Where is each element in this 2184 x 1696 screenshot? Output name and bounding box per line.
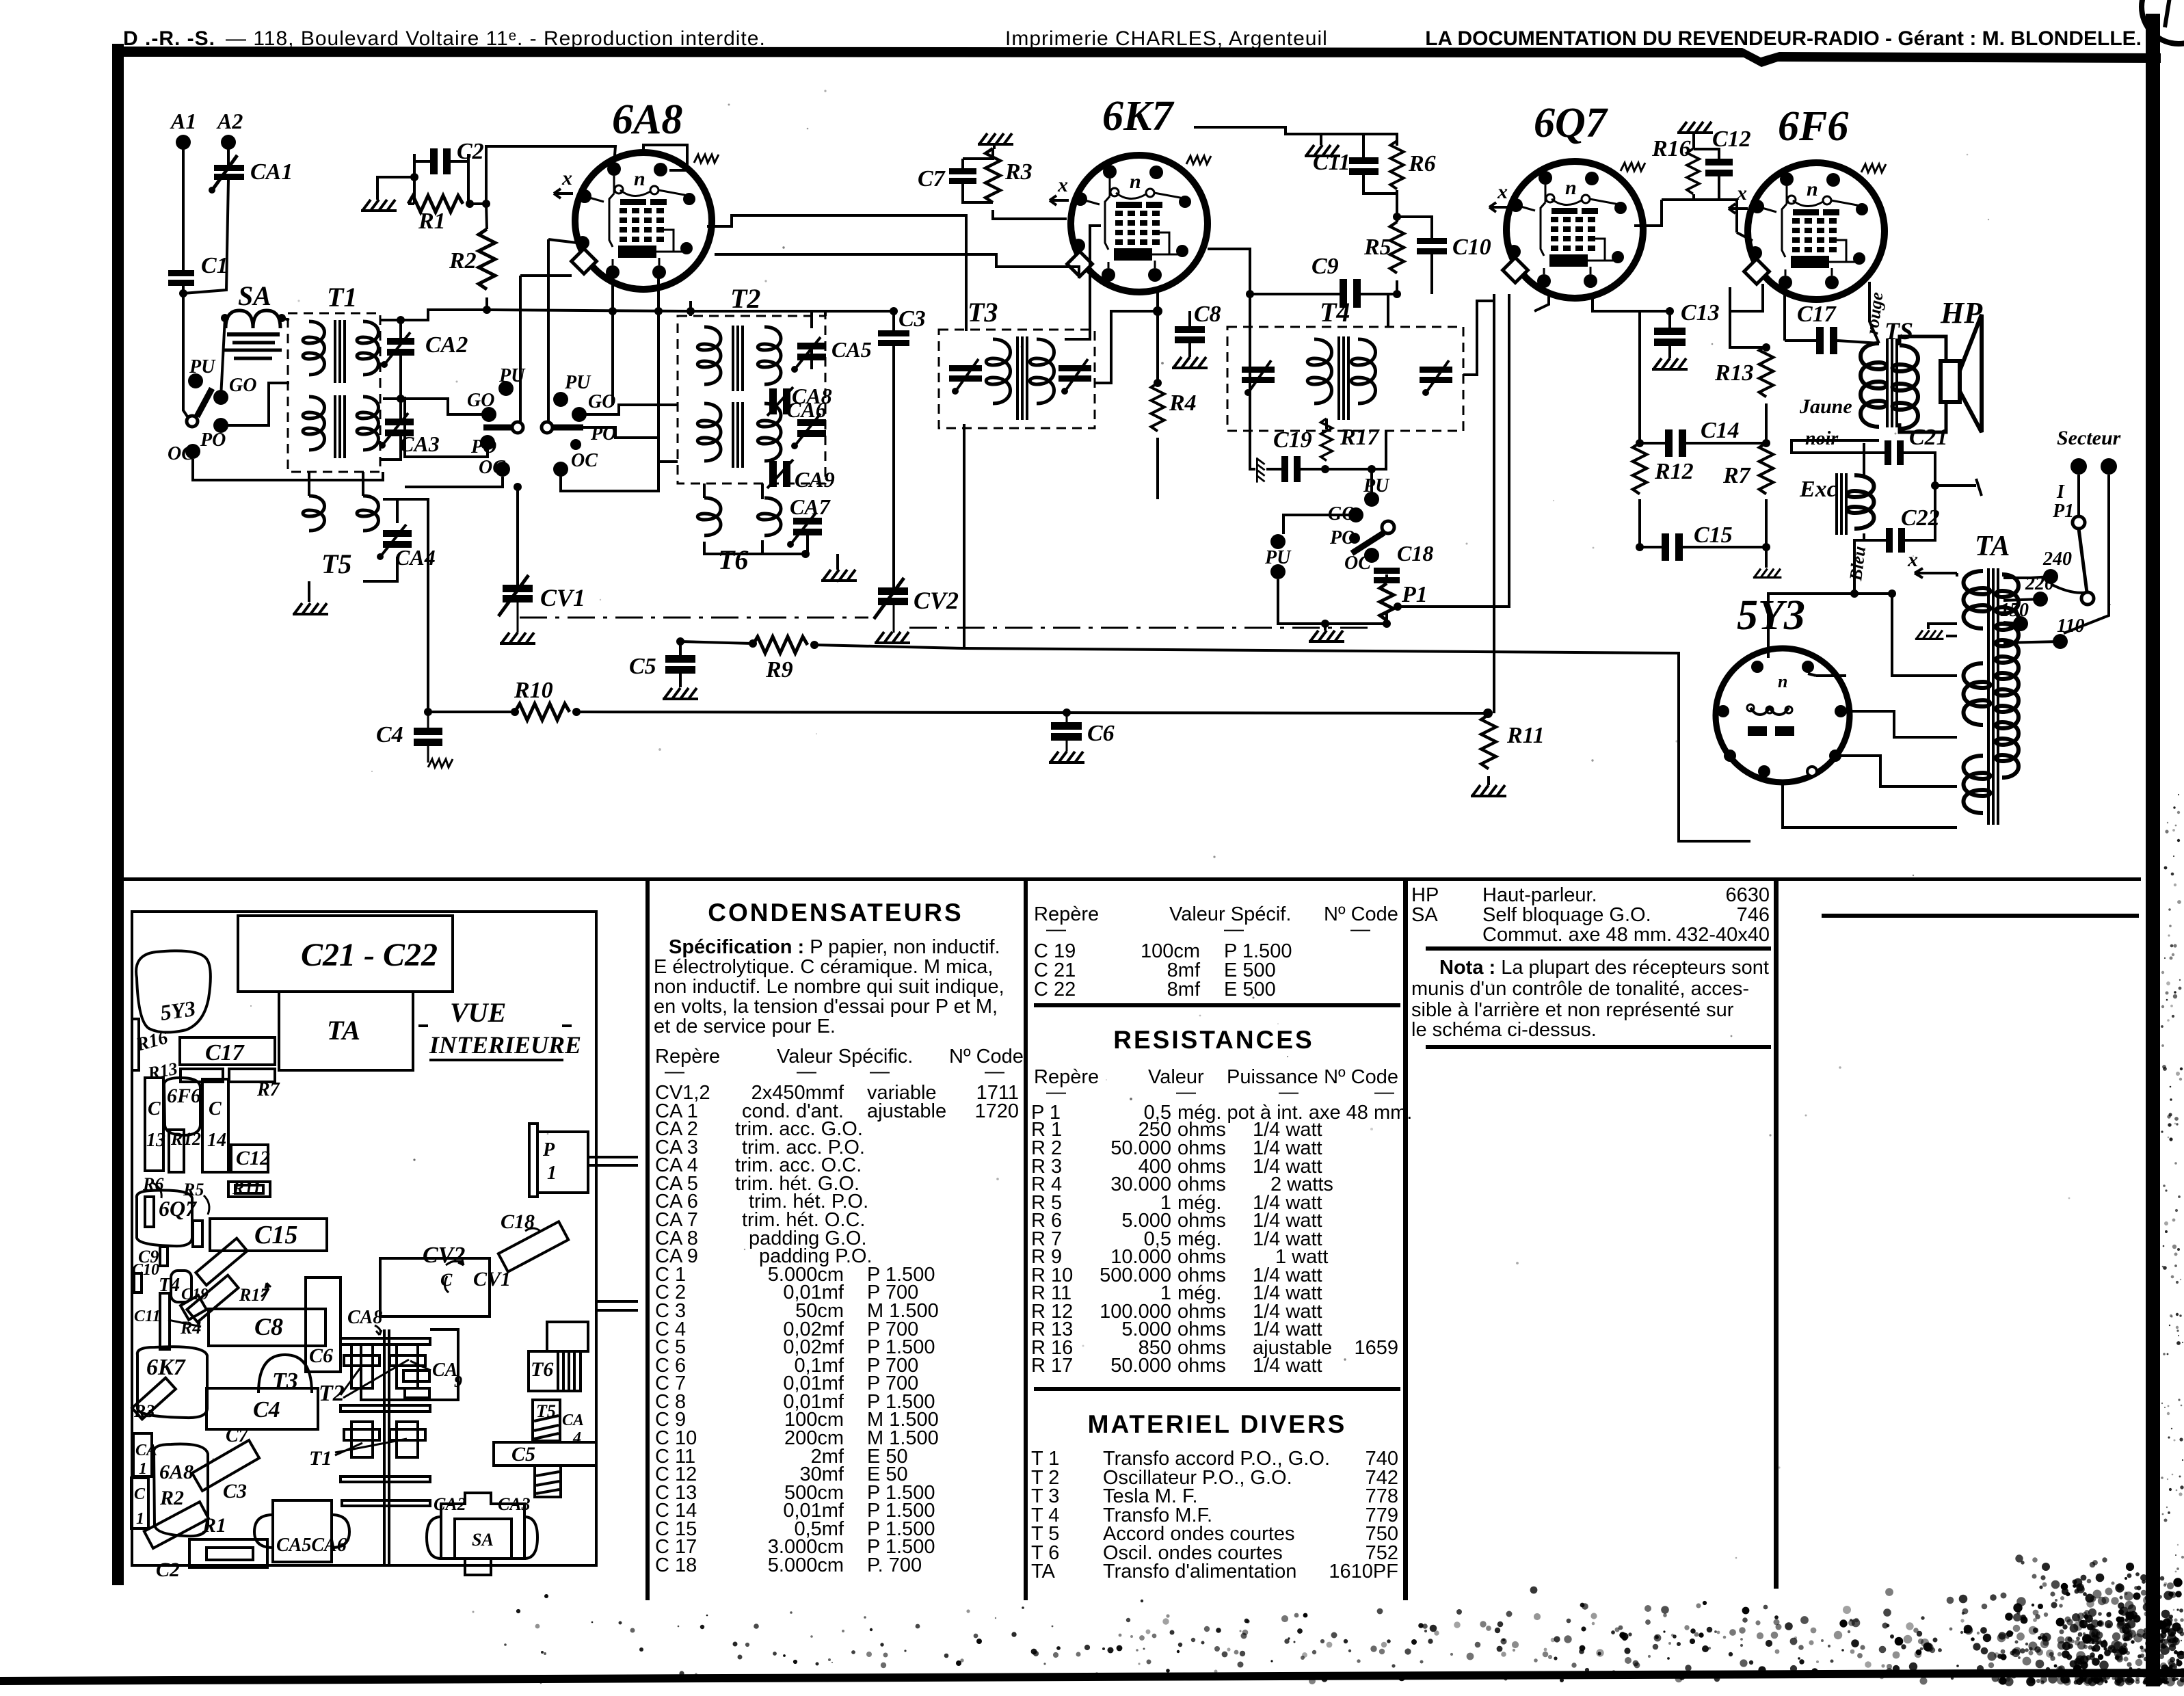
svg-text:Repère: Repère <box>1034 1066 1099 1088</box>
svg-text:T6: T6 <box>718 544 748 575</box>
capacitor C3 <box>878 306 926 346</box>
resistor R11 <box>1481 715 1496 769</box>
svg-text:RESISTANCES: RESISTANCES <box>1113 1026 1314 1054</box>
R6 chip <box>145 1197 154 1227</box>
C12 block <box>231 1145 268 1172</box>
grid cap C7 and R3 on 6K7 <box>918 166 976 191</box>
svg-text:R7: R7 <box>1722 463 1752 488</box>
svg-text:Secteur: Secteur <box>2057 427 2121 449</box>
svg-text:HP: HP <box>1940 296 1983 330</box>
svg-text:SA: SA <box>238 280 271 311</box>
node A2 antenna terminal <box>221 135 236 150</box>
svg-text:— 118, Boulevard Voltaire: — 118, Boulevard Voltaire 11ᵉ. - Reprodu… <box>226 27 766 50</box>
C13 block <box>145 1078 163 1171</box>
svg-text:T3: T3 <box>968 297 998 328</box>
cluster S4 switch <box>1328 475 1394 574</box>
resistor R9 <box>753 637 808 653</box>
svg-text:110: 110 <box>2057 615 2084 637</box>
svg-text:Commut. axe 48 mm.: Commut. axe 48 mm. <box>1482 924 1672 946</box>
ground <box>663 688 698 699</box>
wire 6K7 top to R6 <box>1194 127 1363 134</box>
svg-text:x: x <box>561 167 572 189</box>
svg-text:P: P <box>542 1139 555 1161</box>
chassis labels <box>132 937 584 1581</box>
svg-text:R1: R1 <box>418 209 446 234</box>
svg-text:C5: C5 <box>629 654 656 679</box>
svg-text:CA2: CA2 <box>434 1494 466 1514</box>
power transformer TA <box>1964 571 2019 813</box>
svg-text:12: 12 <box>183 1129 201 1149</box>
svg-text:R11: R11 <box>232 1178 261 1198</box>
capacitor C1 <box>168 253 228 286</box>
antenna choke SA <box>224 310 282 358</box>
svg-text:C15: C15 <box>254 1221 297 1249</box>
svg-text:C3: C3 <box>898 306 926 332</box>
svg-text:PU: PU <box>498 365 526 386</box>
T4 small blob <box>171 1271 191 1302</box>
R11 chip <box>228 1182 270 1197</box>
svg-text:8mf: 8mf <box>1167 979 1201 1001</box>
CV2 box <box>380 1258 490 1316</box>
svg-text:1: 1 <box>136 1510 144 1528</box>
wire R2 top/bottom <box>486 204 583 422</box>
node A1 antenna terminal <box>176 135 191 150</box>
capacitor C6 <box>1051 721 1115 746</box>
wires of R12/R7/C14/C15 network <box>1640 403 1766 568</box>
svg-text:6K7: 6K7 <box>1102 93 1175 140</box>
svg-text:munis d'un contrôle de tonalit: munis d'un contrôle de tonalité, acces- <box>1411 978 1749 1000</box>
top border bar <box>112 47 2161 67</box>
svg-text:T2: T2 <box>730 283 760 314</box>
tube U4 6F6 <box>1729 103 1886 300</box>
svg-text:1610PF: 1610PF <box>1329 1561 1398 1582</box>
svg-text:INTERIEURE: INTERIEURE <box>429 1031 581 1059</box>
padding capacitor CA9 <box>767 460 835 492</box>
svg-text:6A8: 6A8 <box>612 96 682 143</box>
padding capacitor CA8 <box>767 384 832 416</box>
ground <box>1677 122 1713 133</box>
ground <box>500 633 535 644</box>
gang dash-dot line CV1-CV2 <box>520 617 868 619</box>
svg-text:C8: C8 <box>254 1313 283 1340</box>
svg-text:CA6: CA6 <box>786 397 827 422</box>
pickup terminals PU <box>1270 534 1286 549</box>
svg-text:CA7: CA7 <box>790 494 831 519</box>
R3 diagonal chip <box>132 1378 176 1420</box>
wire 6A8 top right pin down to T2 <box>643 145 687 170</box>
svg-text:Exc: Exc <box>1799 477 1837 502</box>
svg-text:Haut-parleur.: Haut-parleur. <box>1482 884 1597 906</box>
svg-text:GO: GO <box>467 390 494 411</box>
T5 box <box>533 1400 560 1441</box>
svg-text:R1: R1 <box>202 1514 226 1537</box>
svg-text:PO: PO <box>470 436 496 458</box>
svg-text:4: 4 <box>572 1429 581 1447</box>
tube 5Y3 blob <box>136 951 211 1032</box>
svg-text:C4: C4 <box>376 722 403 747</box>
capacitor C12 <box>1705 127 1751 176</box>
wire A1 down through C1 to switch <box>183 142 189 419</box>
gang plates <box>341 1338 430 1344</box>
svg-text:TA: TA <box>1031 1561 1056 1582</box>
tube U5 5Y3 rectifier <box>1716 592 1850 782</box>
svg-text:C13: C13 <box>1681 300 1720 326</box>
svg-text:et de service pour E.: et de service pour E. <box>654 1016 836 1037</box>
switch S1 (PU/GO/PO/OC wave selector) <box>168 356 256 464</box>
ground <box>978 133 1013 144</box>
C8 block <box>209 1309 325 1346</box>
svg-text:1: 1 <box>547 1163 557 1184</box>
svg-text:C1: C1 <box>201 253 228 278</box>
ground <box>361 200 397 211</box>
svg-text:1: 1 <box>139 1460 147 1478</box>
chassis capacitor C19 chip <box>181 1295 207 1320</box>
svg-text:MATERIEL DIVERS: MATERIEL DIVERS <box>1088 1410 1347 1438</box>
capacitor C18 <box>1374 541 1433 583</box>
rule in empty right column <box>1822 914 2139 918</box>
svg-text:TA: TA <box>327 1015 360 1046</box>
capacitor C17 <box>1797 302 1837 354</box>
svg-text:OC: OC <box>168 443 194 464</box>
svg-text:CV2: CV2 <box>423 1243 465 1268</box>
R12 chip <box>169 1130 184 1172</box>
C15 block <box>210 1219 327 1251</box>
wire 6A8 to 6K7 cathode run <box>715 254 1079 278</box>
svg-text:C19: C19 <box>1273 427 1312 453</box>
svg-text:C: C <box>209 1098 222 1119</box>
switch S3 cluster <box>542 372 616 477</box>
ground <box>1049 752 1084 763</box>
svg-text:T6: T6 <box>531 1358 553 1381</box>
svg-text:6630: 6630 <box>1725 884 1770 906</box>
variable capacitor CV1 <box>498 575 585 616</box>
resistor R13 <box>1759 346 1773 397</box>
svg-text:OC: OC <box>479 457 505 478</box>
R2 diagonal chip <box>144 1502 209 1548</box>
svg-text:n: n <box>1778 672 1787 691</box>
trimmer capacitor CA5 <box>791 337 872 373</box>
SA bottom bars <box>227 332 280 336</box>
capacitor C21 <box>1885 425 1948 465</box>
wire T3 secondary top to 6K7 grid <box>1065 226 1101 339</box>
svg-text:P1: P1 <box>1401 582 1428 607</box>
trimmer capacitor CA6 <box>786 397 827 449</box>
svg-text:E 500: E 500 <box>1224 979 1276 1001</box>
resistor R7 <box>1759 443 1773 494</box>
svg-text:CA3: CA3 <box>399 432 440 456</box>
resistor R5 <box>1390 222 1404 274</box>
svg-text:E électrolytique. C céramique.: E électrolytique. C céramique. M mica, <box>654 956 993 978</box>
svg-text:PU: PU <box>1363 475 1390 496</box>
wire S2/S3 area down to CV1 <box>516 487 519 585</box>
T2 gang outer box <box>361 1329 458 1400</box>
svg-text:PU: PU <box>1264 547 1292 568</box>
R13 chip <box>181 1069 223 1082</box>
svg-text:P1: P1 <box>2052 501 2074 522</box>
trimmer blocks T2 <box>351 1344 373 1388</box>
wire A2 to CA1 and down <box>183 142 228 293</box>
svg-text:6K7: 6K7 <box>146 1355 187 1380</box>
svg-text:SA: SA <box>472 1530 494 1550</box>
rouge wire from 6F6 plate <box>1869 282 1879 343</box>
svg-text:LA DOCUMENTATION DU REVENDE: LA DOCUMENTATION DU REVENDEUR-RADIO - Gé… <box>1425 27 2142 50</box>
svg-text:9: 9 <box>454 1373 462 1391</box>
svg-text:Imprimerie CHARLES, Argenteu: Imprimerie CHARLES, Argenteuil <box>1005 27 1328 50</box>
svg-text:1/4 watt: 1/4 watt <box>1253 1355 1322 1377</box>
svg-text:R13: R13 <box>146 1059 179 1083</box>
ground <box>1652 358 1688 369</box>
svg-text:C3: C3 <box>223 1480 247 1502</box>
transformer T2 (dashed box) <box>678 316 825 483</box>
wire 6F6 top bias <box>1737 233 1753 241</box>
CA1 strip <box>133 1433 152 1476</box>
svg-text:CA8: CA8 <box>347 1307 382 1328</box>
wire 6A8 grid to T3 primary <box>707 215 966 331</box>
svg-text:Puissance: Puissance <box>1227 1066 1318 1088</box>
T2/T6 vertical wires <box>658 301 805 554</box>
svg-text:C7: C7 <box>226 1425 249 1446</box>
svg-text:—: — <box>1374 1081 1394 1103</box>
ground <box>1753 569 1782 578</box>
svg-text:CV1: CV1 <box>473 1268 511 1290</box>
svg-text:OC: OC <box>571 450 598 471</box>
capacitor C15 <box>1662 522 1733 561</box>
ground <box>821 570 857 581</box>
resistor R16 adjustable <box>1687 149 1699 194</box>
svg-text:6A8: 6A8 <box>159 1461 194 1483</box>
svg-text:R17: R17 <box>1340 425 1381 450</box>
svg-text:C4: C4 <box>253 1397 280 1422</box>
svg-text:—: — <box>797 1061 816 1083</box>
svg-text:CV2: CV2 <box>914 587 959 614</box>
trimmer blocks T1 <box>351 1422 373 1457</box>
wire OC down and right <box>193 459 383 480</box>
capacitor C11 <box>1313 150 1379 175</box>
svg-text:1659: 1659 <box>1354 1337 1398 1359</box>
svg-text:6F6: 6F6 <box>1778 103 1848 150</box>
svg-text:—: — <box>1176 1081 1196 1103</box>
svg-text:en volts, la tension d'essai p: en volts, la tension d'essai pour P et M… <box>654 996 998 1018</box>
R9 diagonal chip <box>196 1238 247 1286</box>
svg-text:D .-R. -S.: D .-R. -S. <box>123 27 215 50</box>
tube 6F6 blob <box>164 1078 200 1135</box>
svg-text:1720: 1720 <box>974 1100 1019 1122</box>
trimmer capacitor CA7 <box>787 494 831 548</box>
svg-text:R10: R10 <box>514 678 553 703</box>
cluster wires up <box>1283 469 1372 534</box>
svg-text:T1: T1 <box>327 282 357 313</box>
svg-text:C19: C19 <box>181 1286 209 1303</box>
svg-text:CA: CA <box>135 1442 157 1459</box>
capacitor CA1 <box>209 155 293 194</box>
svg-text:R3: R3 <box>133 1401 155 1421</box>
R7 chip <box>229 1069 275 1082</box>
svg-text:CA3: CA3 <box>498 1494 531 1514</box>
tube 6A8 blob <box>154 1444 208 1537</box>
svg-text:Repère: Repère <box>1034 903 1099 925</box>
svg-text:CA9: CA9 <box>795 467 835 492</box>
resistor R10 <box>515 704 570 720</box>
wire 6Q7 plate down to C13 node <box>1593 297 1670 311</box>
svg-text:CA2: CA2 <box>425 332 468 358</box>
svg-text:R16: R16 <box>1651 136 1691 161</box>
capacitor C5 <box>629 654 695 679</box>
svg-text:CONDENSATEURS: CONDENSATEURS <box>708 899 963 927</box>
T2 right side vertical <box>812 311 825 369</box>
svg-text:C 18: C 18 <box>655 1554 697 1576</box>
loudspeaker HP <box>1941 315 1982 432</box>
wire T3 area to C8 node <box>1095 287 1158 383</box>
svg-text:—: — <box>1046 918 1066 940</box>
CA7 box <box>547 1322 588 1351</box>
svg-text:C17: C17 <box>205 1040 245 1065</box>
svg-text:T5: T5 <box>321 548 351 579</box>
wire T2 top bus to C3 <box>691 310 894 313</box>
wires around S2/S3 <box>383 397 489 457</box>
R5 chip <box>193 1221 202 1247</box>
svg-text:A2: A2 <box>216 109 243 133</box>
right border bar <box>2146 14 2160 1686</box>
svg-text:—: — <box>985 1061 1004 1083</box>
P1 block <box>537 1132 588 1193</box>
svg-text:T5: T5 <box>536 1401 556 1421</box>
CA5CA6 block with lobes <box>273 1500 332 1562</box>
5Y3 plate caps wires <box>1768 650 1816 782</box>
svg-text:R7: R7 <box>256 1079 280 1100</box>
svg-text:R 17: R 17 <box>1031 1355 1073 1377</box>
svg-text:Jaune: Jaune <box>1799 395 1852 418</box>
ground <box>1257 458 1264 482</box>
capacitor C9 <box>1311 254 1361 308</box>
resistor R12 <box>1633 443 1647 494</box>
wire 6K7 plate to C9 to T4 <box>1208 249 1397 469</box>
svg-text:—: — <box>1279 1081 1299 1103</box>
svg-text:ohms: ohms <box>1177 1355 1226 1377</box>
resistor R2 <box>479 229 495 289</box>
C3 diagonal chip <box>192 1440 259 1491</box>
Jaune wire <box>1792 440 1879 453</box>
resistor R6 <box>1390 141 1403 189</box>
svg-text:P. 700: P. 700 <box>867 1554 922 1576</box>
svg-text:OC: OC <box>1344 553 1371 574</box>
field coil Exc <box>1837 473 1846 535</box>
svg-text:C5: C5 <box>511 1443 535 1466</box>
SA block with lobes <box>441 1493 524 1575</box>
svg-text:C12: C12 <box>236 1147 270 1169</box>
svg-text:HP: HP <box>1411 884 1439 906</box>
svg-text:T1: T1 <box>309 1447 332 1470</box>
bottom border bar <box>0 1669 2184 1685</box>
wire 6F6 grid down <box>1730 284 1763 347</box>
tube U3 6Q7 <box>1489 100 1645 298</box>
svg-text:C21 - C22: C21 - C22 <box>301 937 438 973</box>
central tuning shaft <box>383 1329 386 1565</box>
capacitor CA3 <box>379 413 440 456</box>
ground <box>1305 145 1340 156</box>
svg-text:240: 240 <box>2042 548 2072 570</box>
ground <box>1471 785 1506 796</box>
svg-text:PU: PU <box>564 372 591 393</box>
capacitor C10 <box>1417 235 1491 260</box>
svg-text:C10: C10 <box>1452 235 1491 260</box>
svg-text:Nota : La plupart des récepteu: Nota : La plupart des récepteurs sont <box>1439 957 1769 979</box>
capacitor CA4 <box>377 525 436 570</box>
svg-text:C: C <box>134 1485 146 1503</box>
tube 6Q7 blob <box>137 1190 192 1246</box>
svg-text:6Q7: 6Q7 <box>159 1196 198 1221</box>
svg-text:Self bloquage G.O.: Self bloquage G.O. <box>1482 904 1651 926</box>
C14 block <box>202 1079 228 1172</box>
second vertical from 6Q7 <box>1493 294 1495 713</box>
tube 6K7 blob <box>137 1347 207 1418</box>
svg-text:sible à l'arrière et non repré: sible à l'arrière et non représenté sur <box>1411 999 1734 1021</box>
svg-text:5Y3: 5Y3 <box>1737 592 1805 639</box>
capacitor C13 <box>1654 300 1720 346</box>
svg-text:—: — <box>1350 918 1370 940</box>
Exc field winding <box>1837 473 1846 535</box>
svg-text:C10: C10 <box>132 1261 159 1279</box>
svg-text:R6: R6 <box>1408 151 1436 176</box>
wire SA to T1 <box>282 318 289 320</box>
chassis resistor R17 chip <box>187 1275 238 1323</box>
svg-text:Transfo d'alimentation: Transfo d'alimentation <box>1103 1561 1296 1582</box>
svg-text:x: x <box>1497 181 1508 203</box>
C4 block <box>207 1388 318 1429</box>
svg-text:x: x <box>1057 174 1068 196</box>
C18 diagonal chip <box>498 1221 568 1271</box>
capacitor C19 <box>1273 427 1312 482</box>
block C21-C22 <box>238 916 453 992</box>
svg-text:PU: PU <box>189 356 216 377</box>
svg-text:noir: noir <box>1805 428 1839 449</box>
T3 dome <box>258 1355 312 1393</box>
C6 block <box>306 1277 341 1372</box>
svg-text:C: C <box>148 1098 161 1119</box>
svg-text:—: — <box>1224 918 1244 940</box>
wire C14 bus up to plate line <box>1640 311 1670 414</box>
switch S2 cluster <box>467 365 526 478</box>
svg-text:CV1: CV1 <box>540 584 585 611</box>
wire loop C2/R1 <box>408 154 479 204</box>
svg-text:T4: T4 <box>159 1275 180 1296</box>
C11 chip <box>160 1293 170 1349</box>
svg-text:C17: C17 <box>1797 302 1837 327</box>
svg-text:Bleu: Bleu <box>1846 545 1869 583</box>
svg-text:non inductif. Le nombre qui su: non inductif. Le nombre qui suit indique… <box>654 976 1004 998</box>
wire from node up right to 6A8 <box>470 146 615 204</box>
svg-text:C6: C6 <box>309 1344 333 1367</box>
svg-text:R4: R4 <box>180 1318 201 1338</box>
svg-text:rouge: rouge <box>1862 291 1887 336</box>
potentiometer P1 <box>1380 583 1394 620</box>
output transformer TS <box>1861 343 1918 429</box>
svg-text:6F6: 6F6 <box>167 1085 201 1107</box>
T5 wires and ground <box>309 472 397 602</box>
transformer T4 (dashed box) <box>1227 327 1463 431</box>
svg-text:14: 14 <box>207 1130 226 1151</box>
wire 6A8 lower left pin to T2 area <box>613 277 658 405</box>
svg-text:C2: C2 <box>156 1559 180 1581</box>
capacitor C2 with resistor R1 parallel <box>430 139 484 174</box>
oscillator T6 windings <box>697 498 781 535</box>
svg-text:R12: R12 <box>1654 459 1694 484</box>
left border bar <box>112 44 124 1585</box>
svg-text:T3: T3 <box>272 1368 298 1394</box>
transformer T5 windings (below T1) <box>303 496 379 531</box>
svg-text:ajustable: ajustable <box>867 1100 946 1122</box>
wire T1 top to bus <box>380 310 691 320</box>
svg-text:C6: C6 <box>1087 721 1115 746</box>
